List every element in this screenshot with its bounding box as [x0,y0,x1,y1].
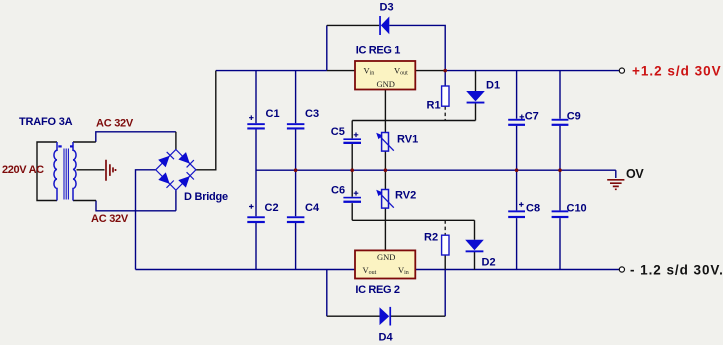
svg-text:- 1.2 s/d 30V.: - 1.2 s/d 30V. [630,262,723,277]
svg-text:TRAFO 3A: TRAFO 3A [19,116,73,128]
svg-text:GND: GND [377,79,395,89]
svg-text:OV: OV [626,167,644,181]
svg-text:AC 32V: AC 32V [96,117,134,129]
svg-text:C4: C4 [305,202,320,214]
svg-text:IC REG 2: IC REG 2 [355,284,399,296]
svg-text:IC REG 1: IC REG 1 [356,44,400,56]
svg-text:D2: D2 [482,257,496,269]
svg-text:R2: R2 [424,232,438,244]
svg-text:+1.2 s/d 30V: +1.2 s/d 30V [632,64,722,79]
svg-text:C2: C2 [265,202,279,214]
svg-text:RV2: RV2 [395,190,416,202]
svg-text:D3: D3 [380,2,394,14]
svg-text:C8: C8 [526,202,540,214]
svg-text:GND: GND [377,252,395,262]
svg-text:D Bridge: D Bridge [184,191,228,203]
svg-text:RV1: RV1 [397,134,418,146]
svg-text:D4: D4 [379,331,394,343]
svg-text:C5: C5 [331,126,345,138]
svg-text:C3: C3 [305,108,319,120]
svg-text:C10: C10 [567,202,587,214]
svg-text:220V AC: 220V AC [2,164,44,176]
svg-text:D1: D1 [486,79,500,91]
svg-text:C6: C6 [331,184,345,196]
svg-text:C7: C7 [525,110,539,122]
svg-text:C9: C9 [567,110,581,122]
svg-text:C1: C1 [266,108,280,120]
svg-text:R1: R1 [427,99,441,111]
svg-text:AC 32V: AC 32V [91,213,129,225]
